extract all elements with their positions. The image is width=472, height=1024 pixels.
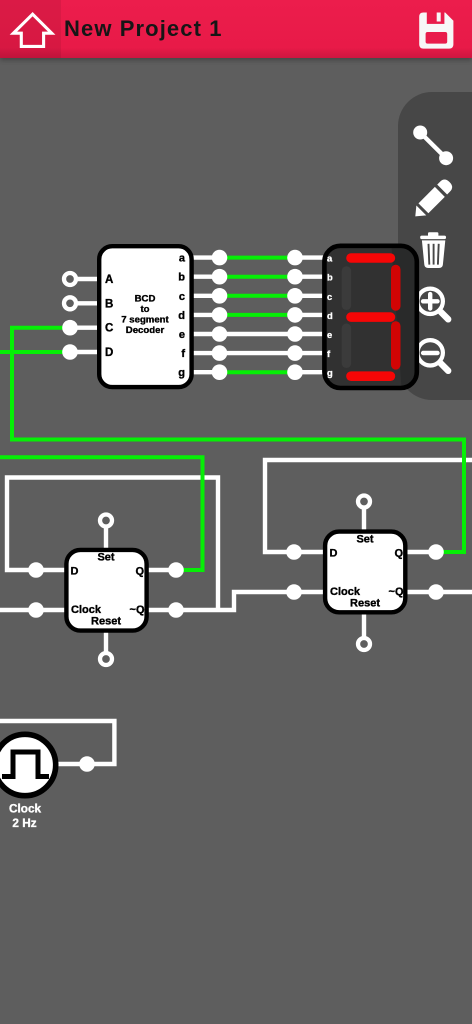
- svg-text:Q: Q: [135, 566, 144, 578]
- node FF2 Reset (open): [358, 638, 370, 650]
- wire clock output stub: [56, 762, 87, 766]
- node decoder input C: [62, 320, 78, 336]
- wire decoder output stub b: [193, 275, 220, 279]
- node decoder output b: [212, 269, 228, 285]
- wire net Q2 to decoder C (high): [12, 328, 464, 552]
- svg-text:Reset: Reset: [91, 616, 121, 628]
- wire segment d (high): [220, 313, 296, 317]
- node display input f: [287, 345, 303, 361]
- node display input e: [287, 326, 303, 342]
- wire FF1 pin stub ~Q: [144, 608, 176, 612]
- node display input d: [287, 307, 303, 323]
- wire segment f (low): [220, 351, 296, 355]
- wire net ~Q1 to Clock2: [176, 592, 294, 610]
- node display input g: [287, 364, 303, 380]
- node FF2 Clock: [286, 584, 302, 600]
- clock source CLK1 2Hz: [0, 734, 56, 830]
- svg-text:D: D: [105, 347, 113, 359]
- 7-segment display DS1: [324, 240, 420, 394]
- svg-text:Reset: Reset: [350, 598, 380, 610]
- svg-text:g: g: [327, 367, 333, 378]
- svg-text:Q: Q: [394, 548, 403, 560]
- wire segment e (low): [220, 332, 296, 336]
- svg-text:A: A: [105, 274, 113, 286]
- wire display input stub a: [295, 255, 327, 259]
- node display input a: [287, 250, 303, 266]
- wire FF1 pin stub D: [36, 568, 70, 572]
- wire decoder output stub c: [193, 294, 220, 298]
- wire FF1 pin stub Set: [104, 527, 108, 553]
- wire segment b (high): [220, 275, 296, 279]
- svg-text:Clock: Clock: [71, 604, 102, 616]
- wire decoder output stub a: [193, 255, 220, 259]
- wire decoder input stub C: [70, 326, 97, 330]
- node FF1 Set (open): [100, 515, 112, 527]
- node decoder input B (open): [64, 297, 76, 309]
- decoder U1 BCD to 7 segment: [99, 246, 191, 387]
- wire Clock1 from left edge: [0, 608, 36, 612]
- node FF1 Clock: [28, 602, 44, 618]
- wire decoder output stub g: [193, 370, 220, 374]
- wire FF2 pin stub Set: [362, 508, 366, 535]
- svg-text:B: B: [105, 298, 113, 310]
- svg-text:~Q: ~Q: [389, 586, 404, 598]
- segment f (unlit): [342, 266, 352, 310]
- flip-flop U3 (right D flip-flop): [325, 532, 405, 613]
- svg-text:7 segment: 7 segment: [121, 315, 169, 326]
- wire decoder output stub e: [193, 332, 220, 336]
- clock CLK1 pulse symbol: [2, 752, 49, 777]
- svg-text:D: D: [71, 566, 79, 578]
- svg-text:Set: Set: [356, 534, 373, 546]
- wire display input stub e: [295, 332, 327, 336]
- node clock output: [79, 756, 95, 772]
- node decoder input D: [62, 344, 78, 360]
- node FF2 Q: [428, 544, 444, 560]
- wire decoder input stub D: [70, 350, 97, 354]
- segment c (lit): [391, 321, 401, 369]
- wire display input stub g: [295, 370, 327, 374]
- wire display input stub d: [295, 313, 327, 317]
- svg-text:~Q: ~Q: [130, 604, 145, 616]
- svg-text:e: e: [179, 329, 185, 341]
- wire FF2 pin stub ~Q: [403, 590, 436, 594]
- pencil tool icon: [410, 177, 454, 221]
- save icon: [417, 10, 457, 52]
- svg-text:a: a: [179, 253, 186, 265]
- node decoder output c: [212, 288, 228, 304]
- node FF2 ~Q: [428, 584, 444, 600]
- segment e (unlit): [342, 324, 352, 369]
- svg-text:b: b: [327, 272, 333, 283]
- node display input b: [287, 269, 303, 285]
- svg-text:D: D: [330, 548, 338, 560]
- segment g (lit): [346, 312, 395, 322]
- svg-text:e: e: [327, 329, 332, 340]
- wire net Q1 to left edge (high): [0, 457, 203, 570]
- header bar: [0, 0, 472, 58]
- wire net D2 feedback upper: [265, 460, 472, 552]
- svg-text:a: a: [327, 253, 333, 264]
- wire segment g (high): [220, 370, 296, 374]
- wire decoder output stub d: [193, 313, 220, 317]
- wire display input stub c: [295, 294, 327, 298]
- wire FF1 pin stub Q: [144, 568, 176, 572]
- svg-text:Clock: Clock: [9, 801, 42, 815]
- svg-text:Clock: Clock: [330, 586, 361, 598]
- wire FF1 pin stub Clock: [36, 608, 70, 612]
- segment d (lit): [346, 371, 395, 381]
- wire segment a (high): [220, 256, 296, 260]
- svg-text:c: c: [327, 291, 332, 302]
- svg-text:d: d: [327, 310, 333, 321]
- wire FF1 pin stub Reset: [104, 628, 108, 653]
- svg-text:to: to: [140, 304, 149, 315]
- segment b (lit): [391, 265, 401, 311]
- home icon: [0, 0, 58, 58]
- wire tool icon: [413, 126, 453, 166]
- node decoder output g: [212, 364, 228, 380]
- svg-text:Decoder: Decoder: [126, 325, 165, 336]
- svg-text:g: g: [178, 367, 185, 379]
- wire ~Q2 to right edge: [436, 590, 472, 594]
- node FF2 Set (open): [358, 496, 370, 508]
- wire clock source run: [0, 721, 114, 764]
- node decoder output e: [212, 326, 228, 342]
- node FF1 ~Q: [168, 602, 184, 618]
- wire display input stub b: [295, 275, 327, 279]
- zoom-in tool icon: [418, 289, 449, 320]
- segment a (lit): [346, 253, 395, 263]
- trash tool icon: [420, 232, 446, 268]
- node display input c: [287, 288, 303, 304]
- svg-text:Set: Set: [97, 552, 114, 564]
- svg-text:f: f: [181, 348, 185, 360]
- wire display input stub f: [295, 351, 327, 355]
- svg-text:c: c: [179, 291, 185, 303]
- svg-text:BCD: BCD: [135, 294, 156, 305]
- node FF1 D: [28, 562, 44, 578]
- node decoder output a: [212, 250, 228, 266]
- wire net D1 feedback (~Q1 to D1): [7, 478, 218, 611]
- svg-text:C: C: [105, 323, 113, 335]
- node FF1 Q: [168, 562, 184, 578]
- wire decoder input stub B: [77, 301, 98, 305]
- zoom-out tool icon: [418, 340, 449, 371]
- svg-text:b: b: [178, 272, 185, 284]
- wire decoder input stub A: [77, 277, 98, 281]
- wire segment c (high): [220, 294, 296, 298]
- svg-text:d: d: [178, 310, 185, 322]
- node decoder output f: [212, 345, 228, 361]
- wire FF2 pin stub Clock: [294, 590, 329, 594]
- flip-flop U2 (left D flip-flop): [66, 550, 146, 631]
- node decoder output d: [212, 307, 228, 323]
- wire FF2 pin stub D: [294, 550, 329, 554]
- svg-text:2 Hz: 2 Hz: [12, 816, 36, 830]
- node decoder input A (open): [64, 273, 76, 285]
- node FF2 D: [286, 544, 302, 560]
- wire decoder D to left edge (high): [0, 350, 70, 354]
- wire FF2 pin stub Q: [403, 550, 436, 554]
- node FF1 Reset (open): [100, 653, 112, 665]
- toolbar panel: [398, 92, 472, 400]
- wire FF2 pin stub Reset: [362, 610, 366, 638]
- wire decoder output stub f: [193, 351, 220, 355]
